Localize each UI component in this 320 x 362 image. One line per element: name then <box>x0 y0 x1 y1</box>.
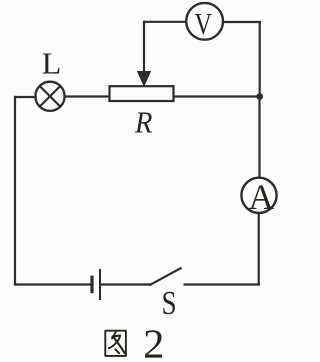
wire: top-left, left rail to lamp <box>15 96 36 98</box>
battery cell: short thick plate (negative) <box>90 277 93 291</box>
svg-text:L: L <box>42 46 62 80</box>
lamp L (circle with X) <box>35 82 64 111</box>
switch S blade <box>150 268 180 285</box>
wire: right rail, junction to ammeter <box>258 97 260 178</box>
wire: bottom right, switch to right rail <box>185 283 259 285</box>
svg-text:V: V <box>195 7 212 42</box>
wire: voltmeter left lead <box>144 21 186 23</box>
node: junction dot (rheostat wire meets right rail) <box>256 93 263 100</box>
wire: right rail, ammeter to bottom corner <box>258 214 260 285</box>
rheostat R body <box>110 86 174 101</box>
wire: voltmeter right lead <box>223 21 260 23</box>
wire: lamp to rheostat <box>65 95 109 97</box>
ammeter A circle <box>241 178 276 213</box>
wire: rheostat to right rail <box>174 95 260 97</box>
rheostat wiper arrow (from voltmeter branch) <box>138 22 151 86</box>
svg-text:2: 2 <box>143 322 164 362</box>
wire: left rail vertical <box>14 97 16 285</box>
caption: hanzi TU (figure) drawn as paths <box>105 331 126 356</box>
wire: right rail, top corner down to junction <box>259 22 261 97</box>
wire: battery to switch hinge <box>101 283 150 285</box>
svg-text:S: S <box>161 284 176 321</box>
wire: bottom left, left rail to battery <box>15 283 90 285</box>
battery cell: long thin plate (positive) <box>99 270 101 299</box>
voltmeter V circle <box>186 3 223 40</box>
svg-text:A: A <box>249 176 275 216</box>
svg-text:R: R <box>134 106 152 140</box>
